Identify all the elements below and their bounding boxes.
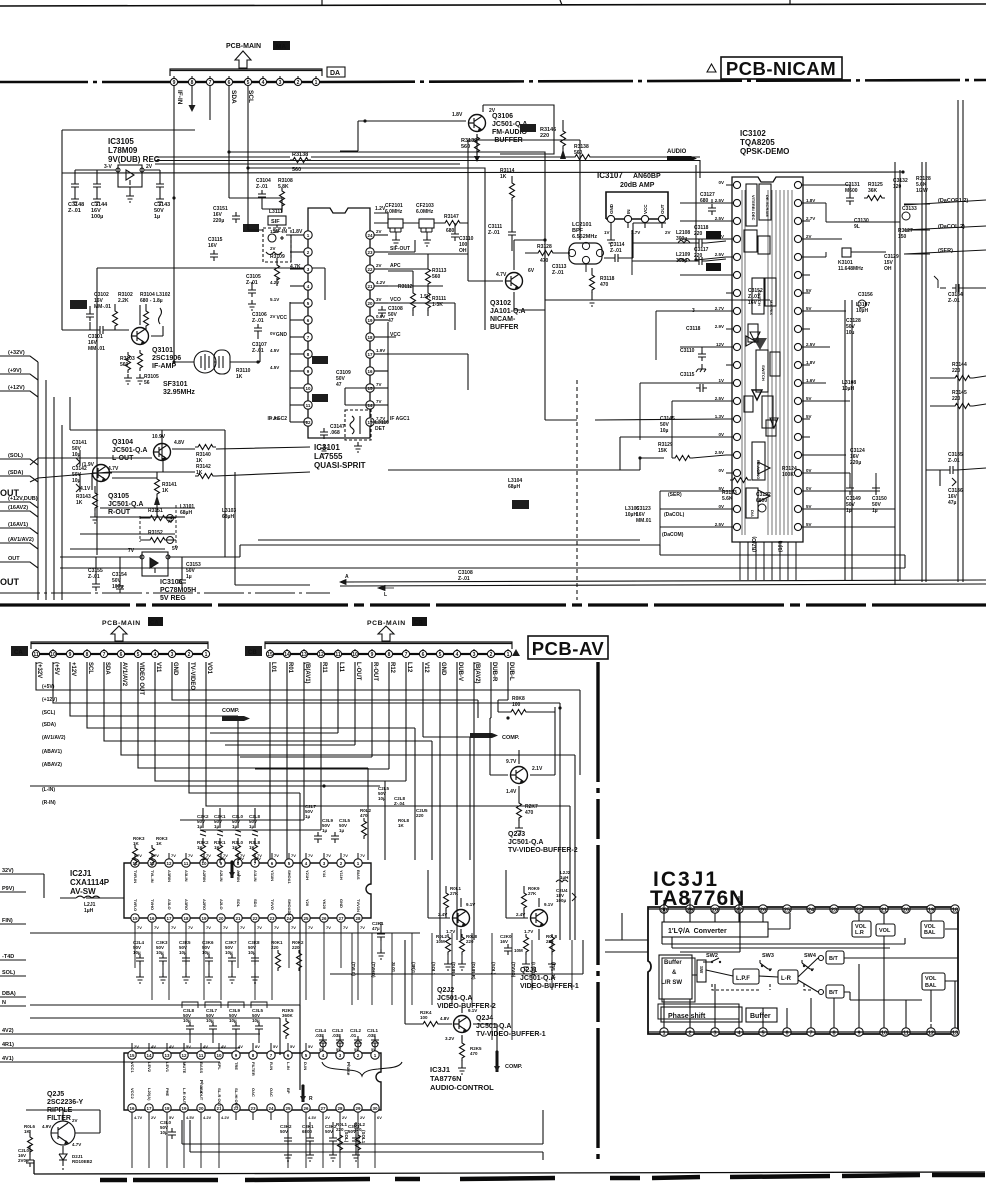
svg-text:7V: 7V — [171, 853, 176, 858]
svg-text:50V: 50V — [325, 1129, 333, 1134]
svg-text:(SER): (SER) — [938, 248, 953, 254]
C3135 — [946, 452, 963, 474]
resistor R3136 — [290, 152, 311, 173]
svg-text:4V: 4V — [151, 1044, 156, 1049]
PCB-MAIN CA header — [102, 617, 163, 627]
svg-text:10: 10 — [352, 652, 358, 658]
caps below IC audio — [280, 1122, 360, 1161]
R2K5 360K — [282, 1008, 294, 1039]
svg-text:20: 20 — [218, 916, 224, 921]
svg-text:Z-.01: Z-.01 — [488, 230, 500, 236]
C2L0 cap — [18, 1148, 34, 1167]
svg-text:VIDEO-BUFFER-1: VIDEO-BUFFER-1 — [520, 983, 579, 990]
svg-text:1: 1 — [507, 652, 510, 658]
svg-text:20: 20 — [198, 1106, 204, 1111]
svg-text:Q3105: Q3105 — [108, 493, 129, 500]
top pin rail — [648, 908, 958, 910]
Q3101 wires — [90, 304, 163, 336]
R3145 — [952, 390, 973, 409]
svg-text:7V: 7V — [274, 853, 279, 858]
capacitor C3143 — [154, 170, 170, 220]
svg-text:IF AGC2: IF AGC2 — [267, 416, 287, 422]
svg-text:MA: MA — [276, 44, 286, 51]
svg-text:68µH: 68µH — [180, 510, 192, 516]
CA pin drop wires — [36, 662, 580, 806]
IC audio bottom pins — [128, 1088, 382, 1120]
L2J2 C2U4 — [556, 870, 576, 903]
svg-text:10.9V: 10.9V — [152, 434, 166, 440]
svg-text:BASS: BASS — [199, 1062, 204, 1073]
svg-text:B/T: B/T — [829, 956, 839, 962]
svg-text:7V: 7V — [171, 925, 176, 930]
C3136 — [948, 478, 963, 506]
svg-text:VITERBI DEC: VITERBI DEC — [751, 195, 756, 220]
svg-text:JC501-Q.A: JC501-Q.A — [108, 501, 143, 508]
svg-text:L-IN: L-IN — [286, 1062, 291, 1070]
svg-text:28: 28 — [355, 916, 361, 921]
svg-text:2V: 2V — [489, 108, 496, 114]
svg-text:1K: 1K — [500, 174, 507, 180]
svg-text:TVV1N: TVV1N — [356, 899, 361, 912]
svg-text:IF-AMP: IF-AMP — [152, 363, 176, 370]
svg-text:L: L — [238, 872, 241, 878]
IC3101 right pins — [366, 229, 388, 426]
svg-text:5: 5 — [247, 80, 250, 86]
svg-text:1µH: 1µH — [560, 875, 568, 880]
svg-text:4.7V: 4.7V — [496, 272, 507, 278]
svg-text:20dB AMP: 20dB AMP — [620, 182, 655, 189]
svg-text:5.6K: 5.6K — [722, 496, 733, 502]
IC3102 bottom drop wires — [740, 542, 796, 580]
svg-text:1K: 1K — [162, 488, 169, 494]
svg-text:L-R: L-R — [781, 976, 792, 982]
svg-text:5V: 5V — [354, 1047, 359, 1052]
svg-text:21: 21 — [367, 284, 373, 289]
svg-text:&: & — [672, 970, 677, 976]
svg-text:BAL: BAL — [924, 930, 936, 936]
svg-text:2.7V: 2.7V — [806, 216, 815, 221]
svg-text:DET: DET — [375, 426, 385, 432]
svg-text:DUB-R: DUB-R — [491, 662, 497, 682]
transistor Q2J2 — [453, 910, 470, 927]
IC2J1 body — [124, 863, 371, 918]
svg-text:(1(H): (1(H) — [778, 540, 784, 552]
svg-text:Z-.01: Z-.01 — [88, 574, 100, 580]
long bus wires — [62, 310, 905, 600]
CA label box — [11, 646, 28, 656]
R3143 — [76, 490, 99, 523]
svg-text:5V: 5V — [806, 504, 812, 509]
transistor Q3106 — [469, 115, 486, 132]
svg-text:JA101-Q.A: JA101-Q.A — [490, 308, 525, 315]
svg-text:7: 7 — [209, 80, 212, 86]
C3156 — [858, 292, 873, 308]
resistor R3146 — [560, 120, 566, 159]
svg-text:TVL.IN: TVL.IN — [150, 870, 155, 883]
svg-text:OUT: OUT — [0, 488, 20, 498]
C3131 R3125 — [845, 182, 885, 205]
wire SIF-IN row — [374, 213, 468, 230]
svg-text:SDA: SDA — [104, 662, 110, 675]
svg-text:6: 6 — [228, 80, 231, 86]
svg-text:5.8K: 5.8K — [278, 184, 289, 190]
svg-text:6: 6 — [422, 652, 425, 658]
svg-text:3: 3 — [473, 652, 476, 658]
svg-text:CXA1114P: CXA1114P — [70, 878, 110, 887]
svg-text:SD4: SD4 — [253, 899, 258, 908]
svg-text:2V: 2V — [376, 229, 382, 234]
svg-text:2.5V: 2.5V — [715, 396, 724, 401]
IC3102 filled marks — [753, 338, 767, 350]
svg-text:15: 15 — [132, 916, 138, 921]
svg-text:9: 9 — [371, 652, 374, 658]
svg-text:16V: 16V — [748, 300, 758, 306]
svg-text:1.4V: 1.4V — [506, 789, 517, 795]
wire pin7 — [209, 86, 211, 120]
svg-text:L01: L01 — [270, 662, 276, 673]
svg-text:OUT: OUT — [0, 577, 20, 587]
svg-text:(AV1/AV2): (AV1/AV2) — [8, 537, 34, 543]
svg-text:MM-.01: MM-.01 — [94, 304, 111, 310]
svg-text:470: 470 — [540, 258, 549, 264]
C2K0 cap — [500, 934, 512, 955]
svg-text:IF-IN: IF-IN — [176, 90, 183, 105]
svg-text:18: 18 — [367, 335, 373, 340]
svg-text:0V: 0V — [270, 331, 276, 336]
svg-text:.068: .068 — [330, 430, 340, 436]
svg-text:7: 7 — [405, 652, 408, 658]
svg-text:9L: 9L — [854, 224, 860, 230]
IC2J1 top pins — [131, 853, 365, 885]
triangle marker AV — [512, 649, 520, 656]
svg-text:A3RIN: A3RIN — [167, 870, 172, 882]
svg-text:(L-IN): (L-IN) — [42, 787, 55, 793]
svg-text:OAC: OAC — [251, 1088, 256, 1097]
L3111 SIF tank — [263, 209, 291, 262]
vertical wires with labels — [352, 933, 572, 1040]
svg-text:360K: 360K — [282, 1013, 294, 1018]
IC audio body — [124, 1053, 381, 1110]
svg-text:7V: 7V — [291, 853, 296, 858]
svg-text:4.2V: 4.2V — [203, 1115, 212, 1120]
svg-text:1µ: 1µ — [846, 508, 852, 514]
audio bus 3 lines — [155, 157, 700, 164]
svg-text:32.95MHz: 32.95MHz — [163, 389, 195, 396]
svg-text:7V: 7V — [376, 382, 382, 387]
svg-text:FILTER: FILTER — [47, 1115, 71, 1122]
K3101 — [838, 248, 864, 272]
svg-text:OH: OH — [459, 248, 467, 254]
svg-text:L/R SW: L/R SW — [661, 980, 682, 986]
capacitor C3110 — [451, 230, 474, 254]
R3144 — [952, 362, 973, 381]
svg-text:27K: 27K — [528, 891, 537, 896]
svg-text:560: 560 — [574, 150, 583, 156]
resistor R2K7 — [515, 800, 538, 834]
svg-text:10: 10 — [50, 652, 56, 658]
svg-text:R3147: R3147 — [444, 214, 459, 220]
svg-text:5V: 5V — [336, 1047, 341, 1052]
svg-text:2: 2 — [490, 652, 493, 658]
svg-text:SF3101: SF3101 — [163, 381, 188, 388]
R3114 C3111 — [500, 168, 515, 208]
svg-text:16: 16 — [367, 369, 373, 374]
svg-text:47µ: 47µ — [372, 926, 380, 931]
filter CF2103 — [416, 203, 434, 246]
svg-text:Buffer: Buffer — [664, 960, 682, 966]
IC3102 right pin stubs — [806, 185, 895, 527]
svg-text:50V: 50V — [280, 1129, 288, 1134]
IC3102 left pins — [715, 180, 741, 531]
svg-text:220: 220 — [540, 133, 549, 139]
svg-text:MATRIX: MATRIX — [769, 300, 774, 315]
svg-text:Y11H: Y11H — [339, 870, 344, 880]
C2K1 cap — [372, 921, 385, 959]
svg-text:OUT: OUT — [660, 204, 665, 214]
transistor Q3102 — [506, 273, 523, 290]
svg-text:220: 220 — [466, 939, 474, 944]
C3130 — [854, 218, 869, 230]
svg-text:(B(AV1): (B(AV1) — [304, 662, 310, 684]
MAIN tag2 — [70, 300, 87, 309]
R2K4 100 — [405, 1010, 452, 1027]
transistor Q2J5 — [51, 1121, 75, 1145]
title block tick 1 — [321, 0, 323, 6]
svg-text:23: 23 — [250, 1106, 256, 1111]
IC3102 internal blocks — [744, 184, 780, 518]
svg-text:2: 2 — [188, 652, 191, 658]
LC2101 BPF — [568, 222, 603, 272]
connector DA bar — [170, 69, 322, 76]
svg-text:3: 3 — [279, 80, 282, 86]
svg-text:10M: 10M — [514, 948, 523, 953]
IC3101 bottom pins wires — [290, 302, 388, 422]
svg-text:1K: 1K — [236, 374, 243, 380]
svg-text:5V: 5V — [806, 414, 812, 419]
staircase jog wires — [180, 700, 508, 860]
svg-text:4V: 4V — [203, 1044, 208, 1049]
svg-text:19: 19 — [367, 318, 373, 323]
capacitor C3105 — [246, 274, 261, 310]
svg-text:47: 47 — [388, 318, 394, 324]
C3124 — [850, 448, 865, 466]
svg-text:9.7V: 9.7V — [506, 759, 517, 765]
svg-text:4.5V: 4.5V — [186, 1115, 195, 1120]
IC2J1 bottom vertical drops — [135, 930, 358, 1000]
svg-text:17: 17 — [367, 352, 373, 357]
svg-text:TV-VIDEO-BUFFER-1: TV-VIDEO-BUFFER-1 — [476, 1031, 546, 1038]
svg-text:L12: L12 — [406, 662, 412, 673]
svg-text:5V REG: 5V REG — [160, 595, 186, 602]
svg-text:7V: 7V — [291, 925, 296, 930]
svg-text:(DaCOL): (DaCOL) — [664, 512, 685, 518]
svg-text:4.5V: 4.5V — [270, 365, 279, 370]
svg-text:SW4: SW4 — [804, 953, 817, 959]
svg-text:IC3105: IC3105 — [108, 137, 134, 146]
connector CA bar — [31, 642, 208, 649]
svg-text:3.2V: 3.2V — [445, 1036, 454, 1041]
svg-text:1.7V: 1.7V — [524, 929, 533, 934]
svg-text:4.2V: 4.2V — [376, 280, 385, 285]
svg-text:COMP.: COMP. — [502, 735, 520, 741]
svg-text:9.1V: 9.1V — [468, 1008, 477, 1013]
svg-text:1µ: 1µ — [154, 214, 160, 220]
svg-text:4.5V: 4.5V — [270, 348, 279, 353]
svg-text:YK20: YK20 — [322, 899, 327, 910]
svg-text:20: 20 — [367, 301, 373, 306]
svg-text:Z-.01: Z-.01 — [610, 248, 622, 254]
svg-text:R-OUT: R-OUT — [372, 662, 378, 681]
svg-text:18: 18 — [183, 916, 189, 921]
svg-text:BP: BP — [286, 1088, 291, 1094]
svg-text:BUFFER: BUFFER — [490, 324, 518, 331]
svg-text:10µ: 10µ — [72, 478, 81, 484]
svg-text:TV-VIDEO-BUFFER-2: TV-VIDEO-BUFFER-2 — [508, 847, 578, 854]
svg-text:(+12V): (+12V) — [42, 697, 57, 703]
svg-text:2.5V: 2.5V — [806, 342, 815, 347]
svg-text:OAC: OAC — [269, 1088, 274, 1097]
R3104 L3102 — [140, 292, 171, 329]
C3153 — [178, 562, 201, 587]
svg-text:1′L⚲/A Converter: 1′L⚲/A Converter — [668, 927, 727, 935]
svg-text:Buffer: Buffer — [750, 1013, 771, 1020]
C3116 — [694, 225, 709, 247]
IC3102 internal wires — [742, 190, 792, 535]
svg-text:MUTE: MUTE — [182, 1062, 187, 1074]
svg-text:R12: R12 — [389, 662, 395, 674]
svg-text:2V: 2V — [72, 1118, 78, 1123]
svg-text:PHE: PHE — [165, 1088, 170, 1097]
svg-text:3V: 3V — [376, 297, 382, 302]
svg-text:220µ: 220µ — [213, 218, 224, 224]
svg-text:1.8V: 1.8V — [292, 229, 303, 235]
svg-text:0V: 0V — [806, 486, 812, 491]
svg-text:1.8V: 1.8V — [806, 360, 815, 365]
svg-text:1K: 1K — [76, 500, 83, 506]
page top border line — [0, 4, 986, 6]
VOL BAL box 2 — [922, 973, 945, 990]
Q2J2 wires — [428, 870, 461, 940]
svg-text:2.7V: 2.7V — [715, 306, 724, 311]
bottom thick dashes — [100, 1175, 985, 1180]
svg-text:1µ: 1µ — [872, 508, 878, 514]
IC3102 internal triangles — [746, 332, 778, 502]
svg-text:IC2J1: IC2J1 — [70, 869, 92, 878]
svg-text:APC: APC — [390, 263, 401, 269]
TA8776N body — [648, 907, 958, 1034]
svg-text:PCB-AV: PCB-AV — [532, 638, 605, 659]
svg-text:1-3K: 1-3K — [432, 302, 443, 308]
R0L1 R0L2 220 below — [336, 1122, 366, 1153]
svg-text:2V: 2V — [806, 234, 812, 239]
svg-text:1µ: 1µ — [214, 824, 220, 829]
svg-text:7V: 7V — [326, 925, 331, 930]
Q2J1 wires — [506, 870, 539, 940]
svg-text:JC501-Q.A: JC501-Q.A — [508, 839, 543, 846]
right edge horiz stubs — [904, 200, 986, 486]
svg-text:1µ: 1µ — [322, 828, 328, 833]
svg-text:VO1: VO1 — [206, 662, 212, 675]
svg-text:1µ: 1µ — [186, 574, 192, 580]
svg-text:V11: V11 — [155, 662, 161, 673]
svg-text:4.7K: 4.7K — [290, 264, 301, 270]
svg-text:LEV1: LEV1 — [165, 1062, 170, 1073]
IC3107 body — [606, 192, 668, 219]
svg-text:7V: 7V — [137, 925, 142, 930]
svg-text:2.5V: 2.5V — [715, 522, 724, 527]
C3147 .068 — [320, 424, 345, 454]
IC3102 internal rotated text — [750, 195, 774, 517]
svg-text:SWITCH: SWITCH — [761, 365, 766, 381]
SW3 switch — [760, 953, 774, 971]
R3103 R3105 — [120, 352, 135, 384]
IC3107 pins — [607, 203, 665, 228]
svg-text:28: 28 — [337, 1106, 343, 1111]
svg-text:(R-IN): (R-IN) — [42, 800, 56, 806]
IC3107 gnd — [610, 228, 612, 236]
PCB-AV right chain border — [596, 662, 599, 1165]
svg-text:(+5V: (+5V — [53, 662, 59, 675]
svg-text:VOL: VOL — [925, 976, 937, 982]
svg-text:16: 16 — [149, 916, 155, 921]
svg-text:6800: 6800 — [302, 1129, 313, 1134]
svg-text:GND: GND — [276, 332, 288, 338]
svg-text:P9V): P9V) — [2, 886, 14, 892]
svg-text:B/T: B/T — [829, 990, 839, 996]
Q2J3 wires — [490, 712, 555, 800]
svg-text:(+32V: (+32V — [36, 662, 42, 678]
CB block arrow — [378, 626, 394, 641]
svg-text:27: 27 — [338, 916, 344, 921]
R3129 — [658, 442, 693, 461]
svg-text:LA7555: LA7555 — [314, 452, 343, 461]
svg-text:4.8V: 4.8V — [174, 440, 185, 446]
PCB-NICAM section top chain border — [0, 81, 170, 84]
svg-text:6: 6 — [120, 652, 123, 658]
svg-text:VCO: VCO — [390, 297, 401, 303]
B/T box 1 — [819, 951, 845, 964]
svg-text:R11: R11 — [321, 662, 327, 673]
svg-text:2SC2236-Y: 2SC2236-Y — [47, 1099, 84, 1106]
resistor R3113 — [426, 266, 447, 287]
svg-text:A2LO: A2LO — [219, 899, 224, 910]
C3119 — [686, 308, 701, 332]
svg-text:7V: 7V — [204, 856, 209, 861]
AUDIO bold arrow — [667, 149, 697, 161]
svg-text:1.9V: 1.9V — [376, 348, 385, 353]
MPX tag — [512, 500, 529, 509]
title block tick 3 — [789, 0, 791, 5]
svg-text:0V: 0V — [718, 180, 724, 185]
svg-text:SOL): SOL) — [2, 970, 15, 976]
IC3106 wires — [60, 545, 240, 582]
svg-text:10M: 10M — [436, 939, 445, 944]
capacitor C3144 — [91, 170, 108, 220]
R3118 — [588, 268, 615, 306]
svg-text:(+9V): (+9V) — [8, 368, 22, 374]
svg-text:7V: 7V — [257, 925, 262, 930]
svg-text:5: 5 — [439, 652, 442, 658]
vertical bus right — [845, 100, 963, 585]
svg-text:BAL: BAL — [925, 983, 937, 989]
svg-text:19: 19 — [181, 1106, 187, 1111]
svg-text:Z-.01: Z-.01 — [68, 208, 81, 214]
TA8776N bottom pins — [660, 1028, 959, 1037]
svg-text:VCC: VCC — [276, 315, 287, 321]
svg-text:7V: 7V — [376, 399, 382, 404]
horizontal bus lines mid — [26, 1005, 300, 1090]
svg-text:5V: 5V — [806, 522, 812, 527]
